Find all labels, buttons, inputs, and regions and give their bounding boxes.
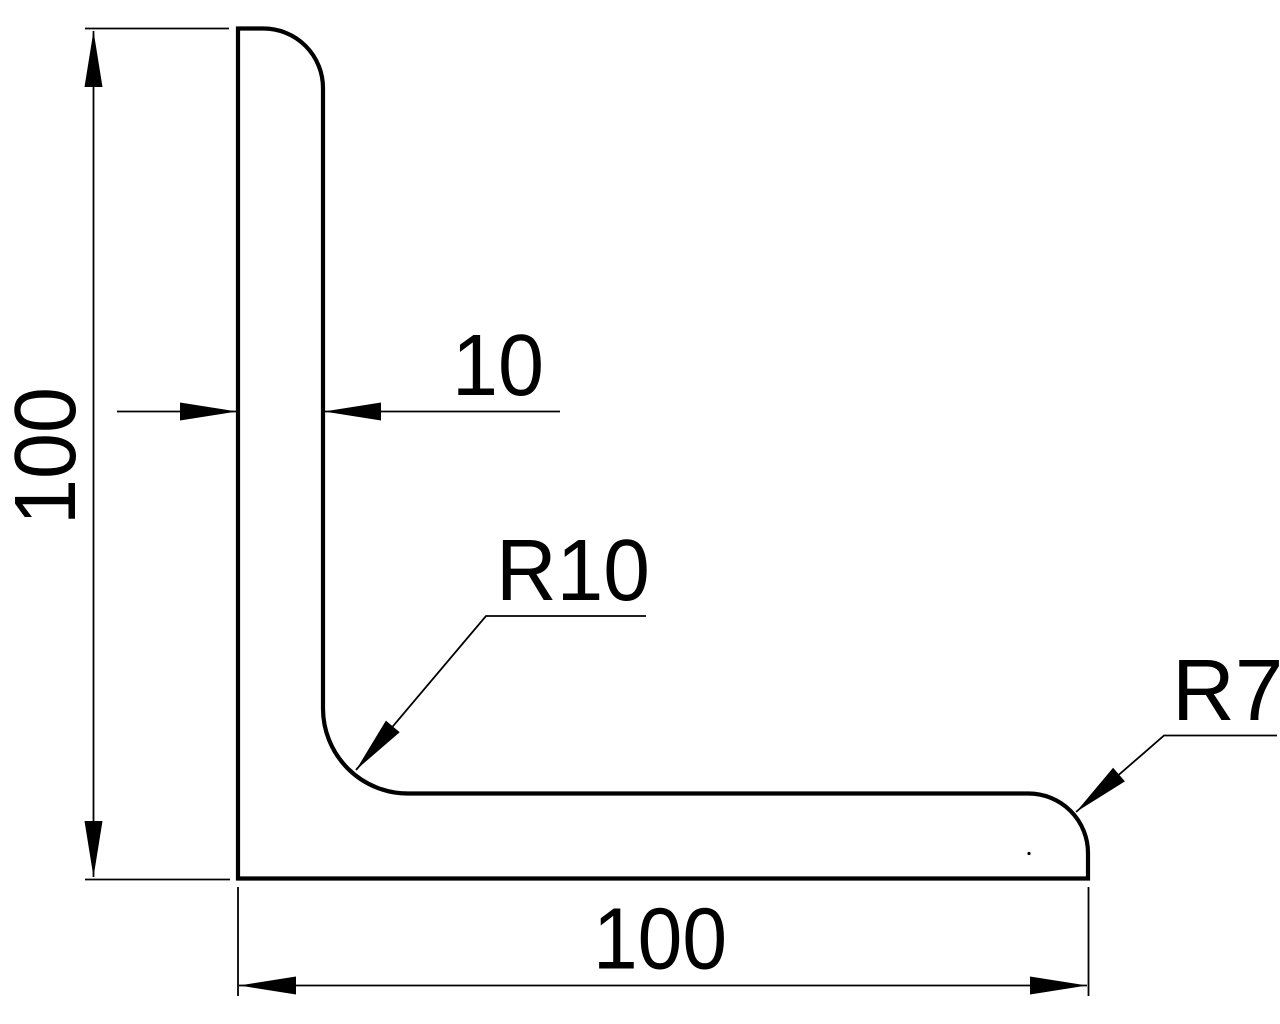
L-angle profile outline: [238, 29, 1088, 879]
arrowhead right-pointing: [180, 403, 237, 421]
svg-text:10: 10: [452, 317, 544, 414]
dimension line vertical 100: [93, 31, 95, 877]
leader R7 arrowhead: [1076, 768, 1125, 812]
arrowhead right-pointing: [1030, 977, 1087, 995]
svg-text:R10: R10: [496, 522, 650, 619]
dimension line 10 left segment: [117, 411, 237, 413]
extension line bottom (left 100 dimension): [85, 879, 230, 881]
svg-text:100: 100: [593, 891, 727, 988]
dimension line bottom 100: [239, 985, 1087, 987]
arrowhead up: [85, 31, 103, 87]
arrowhead left-pointing: [239, 977, 296, 995]
R7 arc center dot: [1027, 852, 1030, 855]
extension line top (left 100 dimension): [85, 28, 229, 30]
arrowhead down: [85, 821, 103, 877]
leader R7: [1076, 736, 1277, 813]
extension line left (bottom 100 dimension): [237, 887, 239, 996]
leader R10 arrowhead: [356, 721, 400, 770]
svg-text:100: 100: [0, 387, 94, 525]
arrowhead left-pointing: [324, 403, 381, 421]
dimension line 10 right segment: [324, 411, 560, 413]
extension line right (bottom 100 dimension): [1088, 887, 1090, 996]
leader R10: [356, 616, 646, 770]
svg-text:R7: R7: [1172, 642, 1280, 739]
